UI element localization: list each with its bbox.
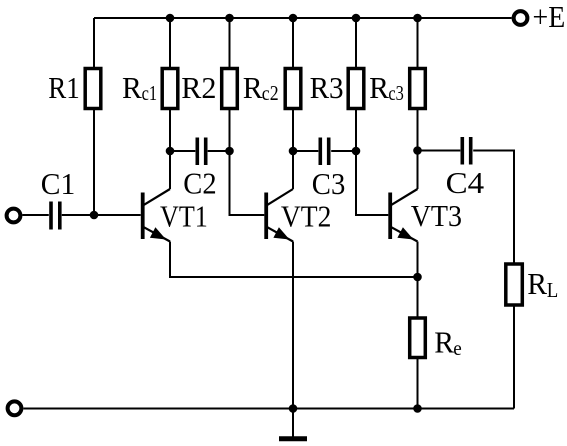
svg-text:R: R [434,325,454,360]
svg-text:+E: +E [533,0,566,34]
svg-text:L: L [547,278,559,302]
svg-text:C4: C4 [446,165,485,200]
svg-text:R3: R3 [310,70,344,105]
svg-text:c1: c1 [142,81,158,105]
svg-text:C1: C1 [41,166,76,201]
svg-text:R: R [369,70,389,105]
svg-text:VT2: VT2 [281,198,332,233]
svg-text:C3: C3 [312,166,346,201]
svg-text:c2: c2 [262,81,279,105]
svg-text:VT1: VT1 [160,198,208,233]
svg-text:C2: C2 [183,166,216,201]
svg-text:R: R [243,70,263,105]
svg-text:R: R [527,266,547,301]
svg-text:e: e [453,336,462,360]
svg-text:VT3: VT3 [411,198,462,233]
svg-text:c3: c3 [388,81,404,105]
svg-text:R1: R1 [48,70,79,105]
svg-text:R: R [122,70,142,105]
svg-text:R2: R2 [181,70,216,105]
